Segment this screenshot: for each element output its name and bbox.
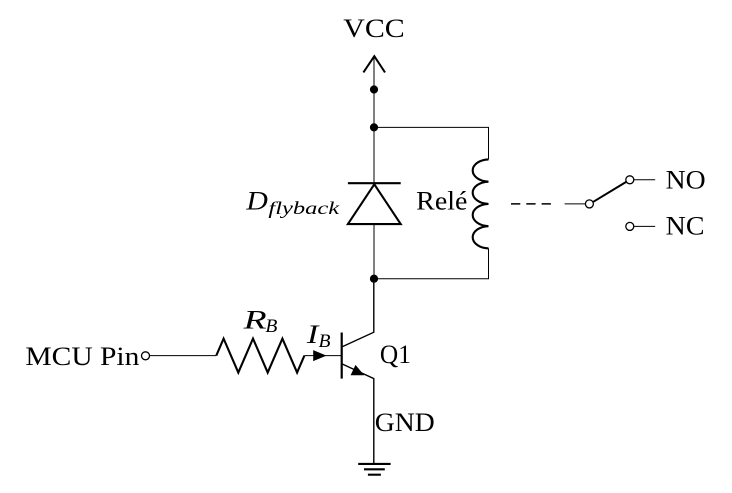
I_B current arrow — [313, 350, 326, 361]
node top junction dot — [370, 123, 378, 131]
relay coil L1 — [473, 159, 489, 248]
switch arm — [593, 182, 626, 202]
wire relay bottom to bottom junction — [374, 248, 489, 278]
svg-text:D: D — [245, 186, 268, 215]
wire NO — [634, 179, 655, 181]
svg-text:Relé: Relé — [416, 187, 467, 216]
wire NC — [634, 225, 655, 227]
diode D_flyback — [348, 183, 401, 224]
transistor Q1 collector — [343, 279, 374, 347]
wire to switch pole — [565, 203, 585, 205]
resistor R_B — [216, 339, 304, 373]
wire terminal to resistor — [150, 355, 217, 357]
VCC arrow — [363, 56, 385, 72]
transistor Q1 emitter arrow — [351, 365, 365, 375]
wire resistor to base — [304, 355, 341, 357]
switch NO contact — [626, 176, 634, 184]
node bottom junction dot — [370, 275, 378, 283]
dashed mechanical link — [511, 203, 556, 205]
svg-text:R: R — [242, 306, 267, 335]
node VCC dot — [370, 85, 378, 93]
ground symbol — [358, 464, 390, 475]
svg-text:MCU Pin: MCU Pin — [25, 342, 139, 371]
svg-text:NC: NC — [666, 212, 705, 241]
svg-text:Q1: Q1 — [380, 340, 411, 369]
wire VCC rail to diode — [373, 56, 375, 183]
switch NC contact — [626, 222, 634, 230]
svg-text:B: B — [319, 332, 331, 352]
wire diode to bottom junction — [373, 224, 375, 279]
svg-text:B: B — [265, 317, 277, 337]
switch pole contact — [585, 200, 593, 208]
MCU pin terminal — [142, 352, 150, 360]
wire top junction to relay top — [374, 127, 489, 159]
svg-text:flyback: flyback — [268, 198, 341, 218]
transistor Q1 base bar — [341, 333, 343, 379]
svg-text:VCC: VCC — [343, 14, 405, 43]
svg-text:NO: NO — [666, 166, 706, 195]
transistor Q1 emitter — [343, 364, 374, 463]
svg-text:GND: GND — [375, 408, 435, 437]
